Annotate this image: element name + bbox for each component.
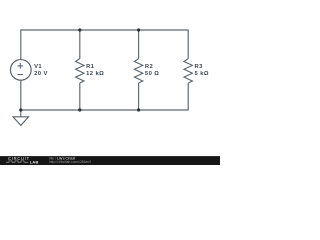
- svg-text:50 Ω: 50 Ω: [145, 71, 160, 77]
- svg-text:R2: R2: [145, 64, 153, 70]
- node junction R1-bottom: [78, 108, 81, 111]
- svg-text:R1: R1: [86, 64, 95, 70]
- wire bottom horizontal: [21, 109, 188, 111]
- wire top horizontal: [21, 29, 188, 31]
- svg-text:http://circuitlab.com/c266ax3: http://circuitlab.com/c266ax3: [49, 160, 91, 164]
- wire R3 top: [187, 30, 189, 59]
- wire R2 top: [138, 30, 140, 59]
- wire V1 top: [20, 30, 22, 61]
- label V1: [34, 64, 48, 77]
- svg-text:CIRCUIT: CIRCUIT: [8, 156, 30, 161]
- voltage source V1: [10, 60, 31, 81]
- wire R2 bottom: [138, 83, 140, 110]
- wire R1 top: [79, 30, 81, 59]
- wire R3 bottom: [187, 83, 189, 111]
- resistor R2: [134, 59, 142, 83]
- node junction R2-bottom: [137, 108, 140, 111]
- label R2: [145, 64, 160, 77]
- svg-text:12 kΩ: 12 kΩ: [86, 71, 104, 77]
- resistor R1: [76, 59, 84, 83]
- svg-text:LAB: LAB: [30, 160, 39, 164]
- label R3: [195, 64, 210, 77]
- svg-text:V1: V1: [34, 64, 42, 70]
- svg-text:R3: R3: [195, 64, 204, 70]
- wire V1 bottom: [20, 80, 22, 110]
- node junction V1-bottom: [19, 108, 22, 111]
- footer logo waveform: [6, 161, 28, 162]
- svg-text:20 V: 20 V: [34, 71, 48, 77]
- node junction R2-top: [137, 28, 140, 31]
- label R1: [86, 64, 104, 77]
- ground: [13, 110, 29, 125]
- footer bar: [0, 156, 220, 165]
- node junction R1-top: [78, 28, 81, 31]
- wire R1 bottom: [79, 83, 81, 110]
- svg-text:5 kΩ: 5 kΩ: [195, 71, 210, 77]
- resistor R3: [184, 59, 192, 83]
